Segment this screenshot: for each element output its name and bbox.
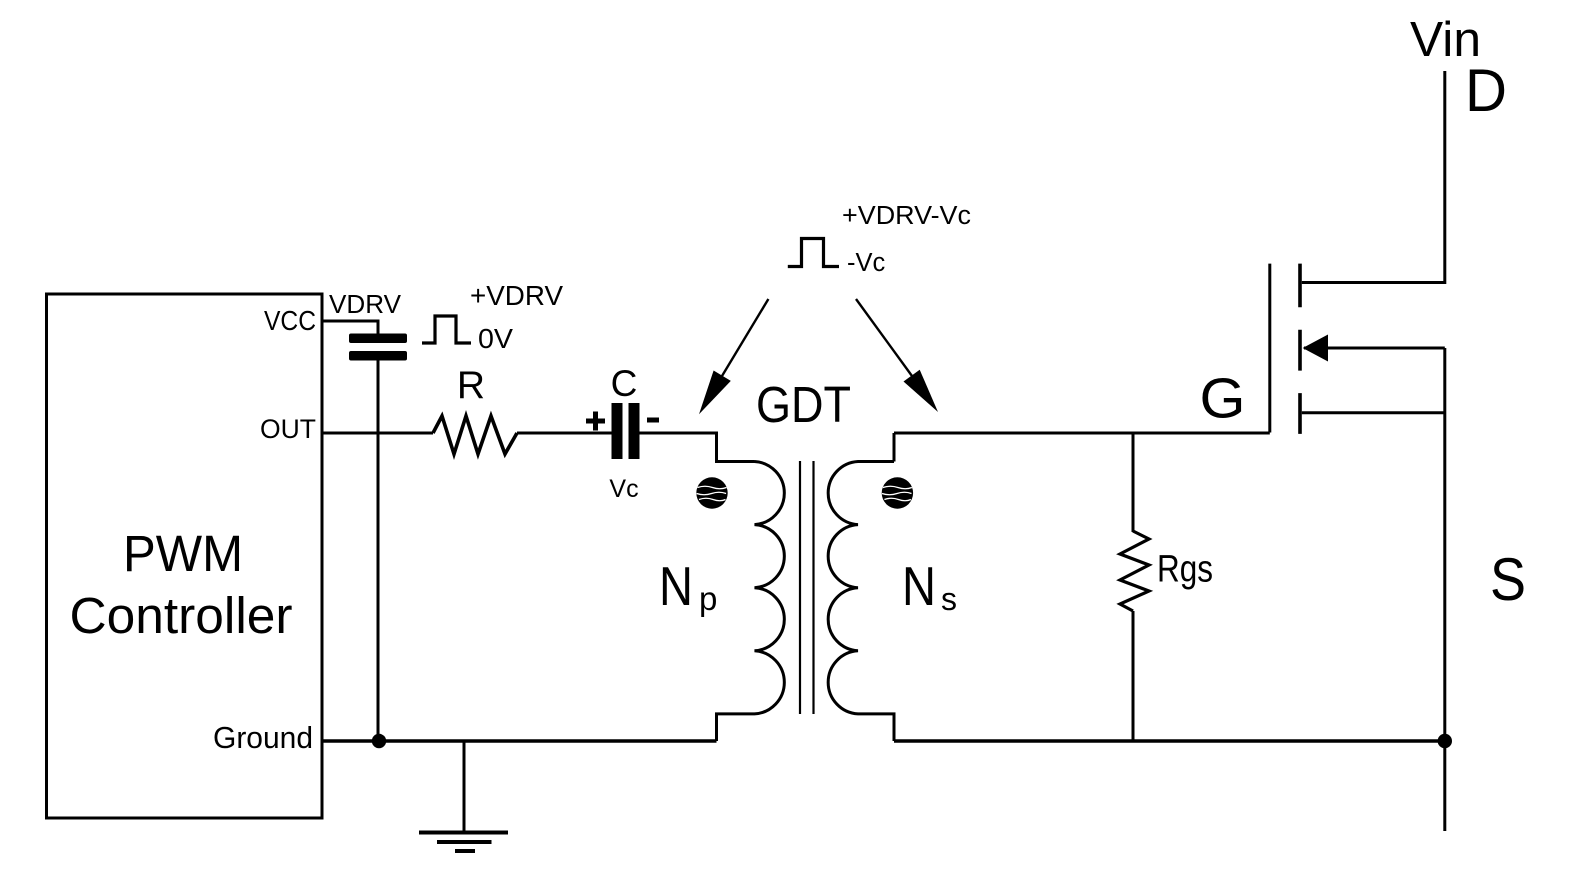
svg-text:PWM: PWM bbox=[123, 525, 243, 582]
svg-text:Controller: Controller bbox=[70, 587, 293, 644]
svg-text:+VDRV: +VDRV bbox=[470, 280, 563, 311]
svg-text:G: G bbox=[1200, 367, 1246, 431]
svg-text:N: N bbox=[902, 555, 936, 617]
svg-text:C: C bbox=[611, 363, 638, 404]
svg-text:-Vc: -Vc bbox=[847, 249, 886, 277]
svg-text:S: S bbox=[1490, 546, 1526, 613]
svg-text:OUT: OUT bbox=[260, 414, 316, 444]
svg-text:N: N bbox=[659, 555, 693, 617]
svg-text:Vc: Vc bbox=[609, 475, 638, 503]
svg-text:p: p bbox=[699, 580, 717, 617]
svg-text:Rgs: Rgs bbox=[1157, 549, 1213, 591]
svg-text:0V: 0V bbox=[478, 323, 513, 354]
svg-text:Ground: Ground bbox=[213, 720, 313, 755]
svg-text:VCC: VCC bbox=[264, 305, 316, 336]
svg-text:D: D bbox=[1465, 57, 1507, 124]
svg-text:+VDRV-Vc: +VDRV-Vc bbox=[842, 202, 971, 230]
svg-text:s: s bbox=[941, 581, 957, 617]
svg-text:R: R bbox=[457, 364, 485, 407]
svg-text:VDRV: VDRV bbox=[329, 289, 402, 319]
svg-text:GDT: GDT bbox=[756, 376, 851, 433]
